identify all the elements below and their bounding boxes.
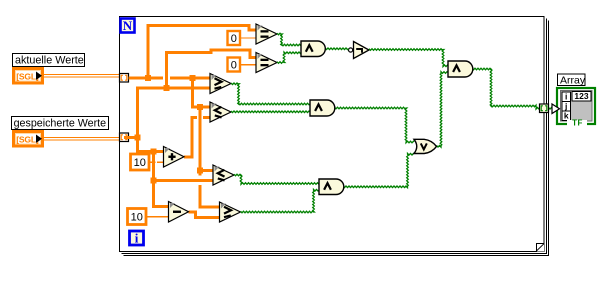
wire: branch to Less-Equal2 top input [200, 169, 213, 172]
indicator label: Array [558, 74, 586, 86]
Array indicator terminal (boolean array) [557, 88, 595, 128]
boolean wire: Greater-Equal1 to And2 top input [231, 83, 310, 105]
svg-text:0: 0 [231, 59, 237, 71]
Array indicator input arrow [552, 104, 560, 114]
array control terminal [SGL] (aktuelle Werte) [14, 69, 43, 84]
loop input tunnel (aktuelle Werte) [120, 74, 129, 83]
wire: branch up to Equal1 top input [148, 26, 256, 79]
svg-text:[SGL]: [SGL] [16, 135, 39, 145]
boolean wire: output tunnel to Array indicator [549, 108, 554, 110]
loop output tunnel (boolean array) [540, 104, 549, 113]
boolean wire: Less-Equal2 to And3 top input [234, 174, 319, 184]
boolean wire: Not gate to And4 top input [369, 49, 448, 67]
wire junction [151, 149, 157, 155]
Subtract node [169, 202, 189, 223]
wire: constant 10 to Subtract bottom input [146, 216, 169, 218]
And gate (top, Equal results) [301, 41, 325, 57]
wire: aktuelle main run to Greater-Equal top input [129, 77, 211, 80]
svg-text:[SGL]: [SGL] [16, 72, 39, 82]
svg-text:j: j [564, 101, 567, 111]
svg-text:0: 0 [231, 33, 237, 45]
boolean wire: Or gate to And4 bottom input [437, 72, 449, 147]
control label: gespeicherte Werte [12, 117, 109, 130]
Less-Or-Equal? node (lower) [213, 165, 234, 185]
svg-text:N: N [123, 18, 133, 33]
loop input tunnel (gespeicherte Werte) [120, 133, 129, 142]
svg-text:Array: Array [560, 74, 586, 86]
wire junction [145, 75, 151, 81]
wire: branch to Less-Equal2 bottom input [154, 179, 214, 182]
loop count terminal N [121, 18, 135, 33]
svg-text:10: 10 [131, 211, 143, 223]
wire: gespeicherte Werte to loop tunnel [44, 138, 120, 141]
wire crossing gap (vertical over horizontal at 166.5,78) [163, 74, 170, 82]
Less-Or-Equal? node (upper) [210, 102, 231, 122]
svg-text:aktuelle Werte: aktuelle Werte [15, 55, 84, 67]
boolean wire: Equal1 to And1 top input [277, 33, 301, 46]
And gate (final, before tunnel) [448, 61, 473, 77]
wire crossing gap (horizontal over vertical at 200,180.5) [195, 176, 206, 185]
svg-text:i: i [135, 231, 139, 246]
svg-text:10: 10 [134, 157, 146, 169]
wire junction [151, 178, 157, 184]
control label: aktuelle Werte [13, 54, 85, 67]
And gate (middle, range check 1) [310, 100, 335, 116]
Greater-Or-Equal? node (upper) [210, 74, 231, 94]
Equal? node (upper) [256, 24, 277, 44]
boolean wire: Greater-Equal2 to And3 bottom input [241, 189, 320, 212]
wire: constant 10 to Add bottom input [149, 161, 164, 163]
numeric constant 10 (upper) [131, 154, 150, 170]
svg-text:gespeicherte Werte: gespeicherte Werte [14, 118, 107, 130]
wire: branch down to Less-Equal1 top input [193, 78, 211, 107]
boolean wire: And4 to output tunnel [472, 68, 540, 109]
Greater-Or-Equal? node (lower) [220, 202, 241, 222]
And gate (lower, range check 2) [319, 179, 344, 195]
wire: Add output to Less-Equal1 bottom input [184, 118, 210, 158]
wire: constant 0 to Equal2 bottom input [240, 64, 256, 66]
wire junction [190, 75, 196, 81]
wire: branch down to Subtract top input [154, 152, 170, 207]
loop iteration terminal i [130, 231, 144, 246]
svg-text:k: k [564, 111, 569, 121]
numeric constant 0 (upper) [228, 31, 241, 45]
array control terminal [SGL] (gespeicherte Werte) [14, 132, 43, 147]
svg-text:TF: TF [572, 119, 583, 128]
Equal? node (lower) [256, 53, 277, 73]
Or gate [414, 139, 437, 153]
wire junction [135, 135, 141, 141]
wire junction [197, 104, 203, 110]
wire junction [197, 168, 203, 174]
boolean wire: And1 to Not gate [325, 48, 349, 50]
boolean wire: And2 to Or gate top input [335, 107, 415, 143]
wire: branch up to Equal2 top input [167, 50, 257, 88]
wire: vertical run down to Greater-Equal2 top input [200, 107, 220, 207]
Add node [164, 147, 185, 168]
numeric constant 0 (lower) [228, 58, 241, 72]
svg-text:123: 123 [574, 91, 588, 101]
wire crossing gap (vertical over horizontal at 200,117.5) [197, 113, 203, 122]
Not gate [349, 42, 370, 59]
wire junction [164, 85, 170, 91]
for-loop border (N-loop frame) [120, 17, 549, 256]
wire: aktuelle Werte to loop tunnel [44, 75, 120, 78]
boolean wire: Less-Equal1 to And2 bottom input [231, 111, 310, 113]
boolean wire: Equal2 to And1 bottom input [277, 52, 301, 63]
wire crossing gap (thin wire at 153.5,162.25) [155, 161, 157, 163]
wire: constant 0 to Equal1 bottom input [240, 37, 256, 39]
svg-text:i: i [565, 92, 567, 102]
wire: Subtract output to Greater-Equal2 bottom input [189, 212, 221, 218]
loop resize corner glyph [536, 244, 544, 252]
boolean wire: And3 to Or gate bottom input [343, 153, 414, 187]
wire: gespeicherte up-branch to Greater-Equal bottom input [124, 88, 210, 138]
numeric constant 10 (lower) [128, 209, 147, 225]
wire: gespeicherte down-branch to Add top input [138, 138, 165, 152]
